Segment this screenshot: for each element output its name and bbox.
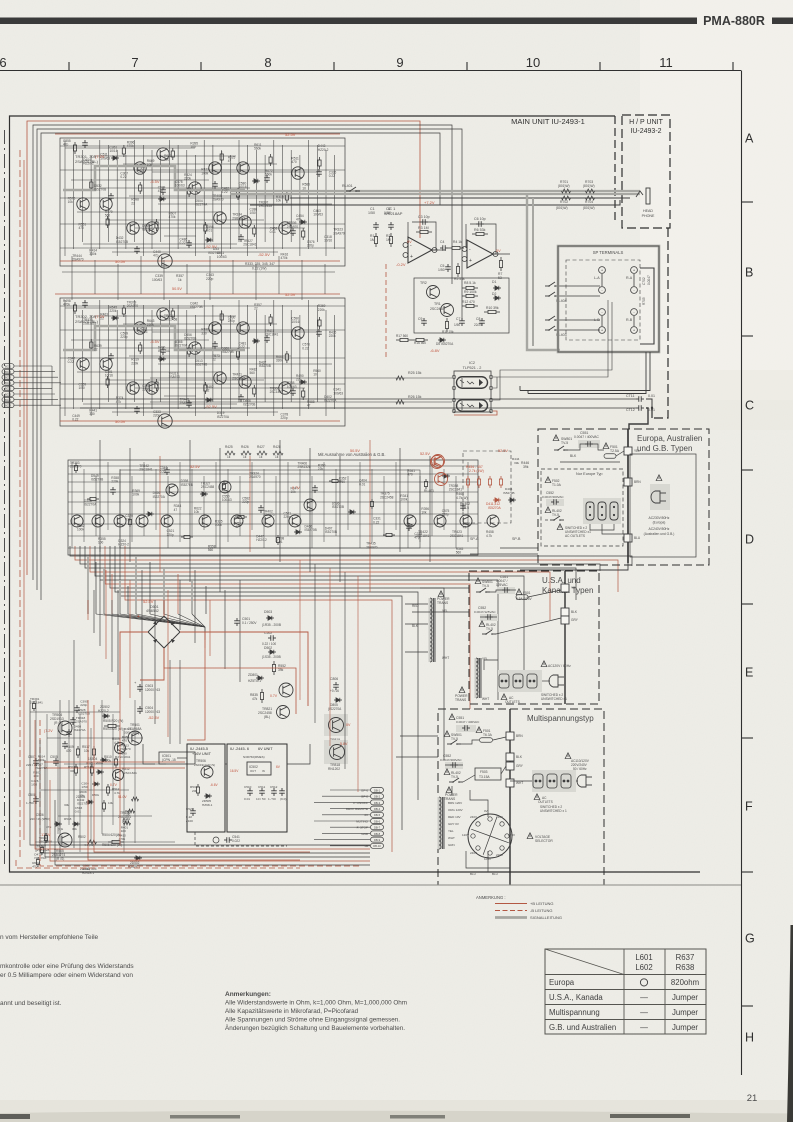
- europa plug: [656, 475, 662, 481]
- svg-text:HZ98-1: HZ98-1: [202, 803, 213, 807]
- transistor TR821: [277, 706, 290, 719]
- diode D301: [158, 197, 166, 201]
- svg-text:UNSWITCHED x1: UNSWITCHED x1: [541, 697, 567, 701]
- wire tone vertical: [71, 462, 73, 548]
- svg-text:10: 10: [313, 372, 317, 376]
- table frame: [545, 949, 706, 1034]
- connector BC-3: [2, 375, 14, 380]
- right tick: [742, 737, 754, 739]
- wire vertical: [247, 145, 249, 256]
- wire horizontal: [123, 163, 277, 165]
- svg-text:n vom Hersteller empfohlene Te: n vom Hersteller empfohlene Teile: [0, 934, 99, 941]
- transistor TR315: [127, 382, 139, 394]
- capacitor C333: [160, 187, 166, 195]
- resistor R311: [253, 385, 256, 397]
- wire vertical: [221, 150, 223, 256]
- svg-text:C527: C527: [186, 807, 194, 811]
- transistor TR415: [199, 515, 211, 527]
- wire feeder: [129, 448, 131, 562]
- svg-text:IS2270A: IS2270A: [175, 344, 188, 348]
- voltage selector rotary: [468, 814, 512, 858]
- svg-text:+B LEITUNG: +B LEITUNG: [530, 901, 553, 906]
- svg-text:+: +: [469, 258, 472, 264]
- svg-text:er 0.5 Milliampere oder einem: er 0.5 Milliampere oder einem Widerstand…: [0, 972, 133, 979]
- svg-text:IN: IN: [262, 769, 265, 773]
- svg-text:BRN: BRN: [634, 480, 641, 484]
- right tick: [742, 469, 754, 471]
- wire vertical: [238, 300, 240, 402]
- svg-text:1k: 1k: [275, 455, 279, 459]
- page separator line: [0, 884, 741, 886]
- red resistor R456: [488, 476, 491, 488]
- wire connector: [14, 382, 61, 384]
- wire vertical: [177, 145, 179, 249]
- europa exit wires: [500, 547, 538, 549]
- part: [164, 467, 170, 475]
- wire vertical: [125, 315, 127, 409]
- power trans label 1: [438, 591, 444, 597]
- svg-text:AC230V/50Hz: AC230V/50Hz: [649, 516, 670, 520]
- bridge diode: [153, 638, 158, 643]
- wire vertical: [125, 155, 127, 249]
- svg-text:OUTLETS: OUTLETS: [505, 700, 520, 704]
- svg-text:470k: 470k: [281, 256, 288, 260]
- resistor R309: [220, 311, 223, 323]
- wire db: [314, 839, 370, 841]
- table column lines: [623, 949, 625, 1034]
- svg-text:IU -2445- 6: IU -2445- 6: [230, 747, 249, 751]
- svg-text:0.0047/125VAC: 0.0047/125VAC: [474, 610, 496, 614]
- connector BC-1: [2, 364, 14, 369]
- svg-text:HEAD: HEAD: [643, 209, 653, 213]
- selector pin: [488, 851, 492, 855]
- bottom red dash bus: [16, 860, 300, 868]
- capacitor C338: [290, 388, 296, 396]
- svg-text:RN1202: RN1202: [328, 767, 340, 771]
- transistor TR420: [434, 515, 446, 527]
- wire feeder: [189, 440, 191, 582]
- capacitor C336: [238, 394, 244, 402]
- part: [146, 512, 154, 516]
- wire connector: [14, 404, 61, 406]
- wire vertical: [282, 145, 284, 249]
- part: [294, 530, 302, 534]
- wire tone vertical: [467, 462, 469, 542]
- svg-text:-6.8V: -6.8V: [430, 348, 440, 353]
- wire rail: [60, 197, 345, 199]
- resistor R5: [456, 263, 459, 277]
- wire db: [322, 814, 370, 816]
- transistor TR2: [427, 286, 440, 299]
- wire horizontal: [158, 363, 332, 365]
- svg-text:IS2270A: IS2270A: [153, 495, 166, 499]
- svg-text:220k: 220k: [184, 177, 191, 181]
- diode D502: [268, 650, 276, 654]
- svg-text:BC-6: BC-6: [5, 392, 11, 396]
- resistor R835: [260, 689, 263, 703]
- selector pin: [500, 846, 504, 850]
- svg-text:220k: 220k: [111, 480, 118, 484]
- part: [128, 517, 131, 527]
- svg-text:120V: 120V: [462, 833, 469, 837]
- wire psu vertical: [112, 714, 114, 825]
- transistor TR403 mid: [304, 499, 316, 511]
- wire horizontal: [135, 227, 305, 229]
- ruler tick: [68, 62, 70, 71]
- resistor R303: [122, 305, 125, 317]
- svg-text:D5 IS5270A: D5 IS5270A: [436, 342, 454, 346]
- svg-text:10k: 10k: [68, 200, 74, 204]
- svg-text:D503: D503: [264, 610, 272, 614]
- red transistor TR426: [431, 456, 444, 469]
- wire horizontal: [65, 307, 195, 309]
- svg-text:—: —: [640, 1023, 648, 1032]
- resistor R426: [241, 451, 251, 455]
- svg-text:50 / 60Hz: 50 / 60Hz: [573, 767, 587, 771]
- wire feeder: [99, 440, 101, 552]
- part psu: [100, 758, 108, 762]
- wire tone vertical: [167, 476, 169, 548]
- svg-text:YEL: YEL: [442, 609, 448, 613]
- wire horizontal: [123, 323, 277, 325]
- wire vertical: [81, 310, 83, 402]
- resistor R304: [139, 342, 142, 354]
- diode D503: [266, 616, 274, 620]
- right page edge dark strip: [787, 925, 793, 1122]
- svg-text:C4: C4: [440, 240, 444, 244]
- part: [370, 499, 373, 509]
- svg-text:BLK: BLK: [412, 624, 419, 628]
- wire tone vertical: [215, 462, 217, 548]
- svg-text:BC-4: BC-4: [5, 381, 11, 385]
- svg-text:0.22: 0.22: [373, 520, 379, 524]
- svg-text:0.0047 / 400VAC: 0.0047 / 400VAC: [574, 435, 599, 439]
- wire tone vertical: [455, 476, 457, 548]
- wire psu horizontal: [64, 763, 166, 765]
- wire psu vertical: [123, 728, 125, 852]
- part psu: [74, 705, 80, 713]
- svg-text:0V: 0V: [407, 240, 412, 244]
- transistor TR315: [127, 222, 139, 234]
- svg-text:R705: R705: [642, 297, 646, 305]
- diode D303: [252, 339, 260, 343]
- svg-text:R10 39k: R10 39k: [486, 306, 499, 310]
- svg-text:0V: 0V: [346, 723, 351, 727]
- svg-text:2SA970: 2SA970: [249, 475, 261, 479]
- svg-text:2SC1841: 2SC1841: [243, 242, 257, 246]
- svg-text:und G.B. Typen: und G.B. Typen: [637, 444, 692, 453]
- connector DB-7: [371, 825, 384, 830]
- wire db: [322, 795, 370, 797]
- svg-text:20k: 20k: [192, 789, 197, 793]
- svg-text:100/63: 100/63: [175, 184, 185, 188]
- diode D1: [493, 286, 501, 290]
- diode D302: [205, 238, 213, 242]
- transistor TR311: [134, 322, 146, 334]
- wire vertical: [299, 155, 301, 256]
- wire psu vertical: [57, 728, 59, 834]
- svg-text:(Europa): (Europa): [653, 521, 666, 525]
- resistor R305: [155, 379, 158, 391]
- svg-text:100k: 100k: [77, 528, 84, 532]
- wire horizontal: [112, 251, 278, 253]
- svg-text:-B LEITUNG: -B LEITUNG: [530, 908, 552, 913]
- svg-text:BC-8: BC-8: [5, 404, 11, 408]
- wire horizontal: [129, 195, 291, 197]
- wire tone vertical: [131, 476, 133, 542]
- wire db: [330, 826, 370, 828]
- wire vertical: [221, 310, 223, 416]
- svg-text:100k: 100k: [400, 497, 407, 501]
- svg-text:220p: 220p: [281, 416, 288, 420]
- svg-text:2SB1328: 2SB1328: [232, 216, 245, 220]
- wire vertical: [134, 300, 136, 402]
- svg-text:0.01: 0.01: [648, 394, 655, 398]
- transistor TR321: [209, 322, 221, 334]
- svg-text:C3 10p: C3 10p: [418, 215, 430, 219]
- capacitor C806: [333, 682, 339, 690]
- svg-text:R16 560: R16 560: [414, 341, 426, 345]
- wire tone vertical: [179, 462, 181, 542]
- selector pin: [505, 834, 509, 838]
- svg-text:—: —: [640, 993, 648, 1002]
- usa node BLK: [561, 608, 569, 616]
- svg-text:DB-4: DB-4: [374, 807, 381, 811]
- svg-text:GP-8: GP-8: [361, 795, 368, 799]
- wire feeder: [279, 440, 281, 562]
- svg-text:8: 8: [264, 55, 271, 70]
- svg-text:IS5270B: IS5270B: [116, 240, 128, 244]
- optocoupler 2: [457, 400, 488, 412]
- svg-text:560: 560: [208, 548, 214, 552]
- svg-text:PHONE: PHONE: [642, 214, 655, 218]
- svg-text:100k: 100k: [201, 171, 208, 175]
- selector spokes: [490, 836, 509, 843]
- svg-text:1/50: 1/50: [454, 323, 460, 327]
- svg-text:C7: C7: [456, 317, 460, 321]
- terminal L-B: [599, 309, 606, 316]
- svg-text:HZ20-2: HZ20-2: [118, 543, 129, 547]
- top bus black 1: [33, 125, 452, 580]
- bridge diode: [170, 621, 175, 626]
- svg-text:(1)k: (1)k: [58, 827, 64, 831]
- usa node bus: [564, 571, 566, 704]
- svg-text:B: B: [745, 266, 753, 280]
- header bar left: [0, 18, 697, 25]
- svg-text:4.7k: 4.7k: [486, 534, 492, 538]
- wire bus: [70, 546, 632, 566]
- signal trunk right: [527, 194, 560, 350]
- svg-text:(CPN -15: (CPN -15: [162, 758, 176, 762]
- svg-text:IS5270B: IS5270B: [325, 530, 337, 534]
- transistor TR505: [58, 833, 72, 847]
- capacitor C502: [268, 635, 276, 641]
- svg-text:YEL: YEL: [448, 829, 454, 833]
- wire psu vertical: [134, 700, 136, 843]
- svg-text:RL401: RL401: [342, 184, 353, 188]
- svg-text:100/63: 100/63: [217, 255, 227, 259]
- wire link vertical: [314, 564, 316, 723]
- svg-text:DB-5: DB-5: [374, 813, 381, 817]
- capacitor C335: [212, 341, 218, 349]
- wire rail: [60, 169, 345, 171]
- wire psu vertical: [35, 700, 37, 852]
- svg-text:47: 47: [307, 404, 311, 408]
- svg-text:2SA970: 2SA970: [169, 375, 181, 379]
- svg-text:47: 47: [463, 526, 467, 530]
- wire psu feeder: [111, 600, 113, 672]
- svg-text:470: 470: [79, 226, 85, 230]
- svg-text:2SC1841: 2SC1841: [450, 534, 464, 538]
- part: [424, 479, 427, 489]
- svg-text:10k: 10k: [194, 510, 200, 514]
- terminal post: [631, 287, 638, 294]
- svg-text:E: E: [745, 666, 753, 680]
- wire bus: [90, 546, 550, 620]
- part psu: [36, 857, 39, 867]
- svg-text:TV-5: TV-5: [561, 441, 568, 445]
- wire vertical: [142, 145, 144, 256]
- fuse F502: [545, 477, 551, 483]
- wire bus: [100, 546, 498, 700]
- usa switch: [475, 578, 481, 584]
- svg-text:Europa, Australien: Europa, Australien: [637, 434, 702, 443]
- wire psu horizontal: [41, 789, 129, 791]
- psu red feed 16V b: [44, 767, 185, 769]
- svg-text:GRY: GRY: [571, 618, 579, 622]
- multi bus: [509, 709, 511, 885]
- part: [200, 492, 208, 496]
- svg-text:IC2: IC2: [469, 361, 475, 365]
- wire vertical: [203, 140, 205, 249]
- svg-text:WHT: WHT: [516, 781, 523, 785]
- svg-text:0.22 (1W): 0.22 (1W): [252, 267, 266, 271]
- sp wires: [601, 274, 603, 286]
- wire rail: [60, 383, 345, 385]
- svg-text:Jumper: Jumper: [672, 1023, 698, 1032]
- header bar right: [772, 18, 793, 25]
- svg-text:HZ5TC-1: HZ5TC-1: [248, 679, 261, 683]
- svg-text:TR1: TR1: [434, 302, 441, 306]
- svg-text:TRANS: TRANS: [455, 698, 467, 702]
- svg-text:560: 560: [250, 371, 256, 375]
- red transistor TR427b: [435, 473, 448, 486]
- svg-text:R426: R426: [241, 445, 249, 449]
- svg-text:2SC2458: 2SC2458: [201, 485, 215, 489]
- wire vertical: [186, 150, 188, 242]
- transistor TR323: [237, 162, 249, 174]
- wire ct down: [629, 408, 648, 429]
- nor europe dashed box: [541, 469, 623, 546]
- svg-text:AC120V / 60Hz: AC120V / 60Hz: [548, 664, 571, 668]
- svg-text:C9: C9: [418, 317, 422, 321]
- wire tone vertical: [203, 476, 205, 530]
- svg-text:16.5V: 16.5V: [230, 769, 239, 773]
- svg-text:2SA970: 2SA970: [212, 197, 224, 201]
- switch RL402e: [545, 507, 551, 513]
- connector BC-5: [2, 386, 14, 391]
- svg-text:220k: 220k: [318, 308, 325, 312]
- part psu: [96, 770, 104, 774]
- resistor R307: [188, 345, 191, 357]
- svg-text:470k: 470k: [63, 303, 70, 307]
- svg-text:22: 22: [131, 201, 135, 205]
- wire vertical: [64, 140, 66, 256]
- svg-text:1M: 1M: [370, 238, 375, 242]
- capacitor C5: [445, 264, 451, 272]
- wire tone vertical: [431, 462, 433, 536]
- svg-text:DB-10: DB-10: [373, 844, 381, 848]
- svg-text:1 / 50: 1 / 50: [268, 797, 276, 801]
- svg-text:P. ON/OFF: P. ON/OFF: [353, 801, 368, 805]
- svg-text:52.5V: 52.5V: [285, 292, 296, 297]
- svg-text:BC-5: BC-5: [5, 387, 11, 391]
- wire link vertical: [329, 568, 331, 746]
- usa outlets: [498, 670, 542, 692]
- connector BC-8: [2, 403, 14, 408]
- top bus black 2: [37, 129, 462, 590]
- wire vertical: [325, 310, 327, 416]
- wire vertical: [168, 140, 170, 256]
- svg-text:IS5270B: IS5270B: [305, 528, 317, 532]
- capacitor C8: [479, 318, 485, 326]
- transistor TR333: [158, 414, 172, 428]
- wire rail: [60, 329, 345, 331]
- wire vertical: [264, 155, 266, 242]
- svg-text:IS5270B: IS5270B: [208, 251, 220, 255]
- svg-text:C512: C512: [270, 785, 278, 789]
- svg-text:2SA970: 2SA970: [72, 257, 84, 261]
- svg-text:(801)W): (801)W): [583, 206, 595, 210]
- svg-text:TRANS: TRANS: [437, 601, 449, 605]
- wire vertical: [151, 150, 153, 249]
- svg-text:2SC1841: 2SC1841: [449, 488, 463, 492]
- transistor TR506: [201, 766, 213, 778]
- svg-text:R518: R518: [64, 817, 72, 821]
- top bus black 3: [41, 133, 440, 600]
- svg-text:IS5270B: IS5270B: [259, 364, 271, 368]
- capacitor C339: [316, 329, 322, 337]
- transistor TR307: [77, 198, 89, 210]
- svg-text:220k: 220k: [110, 309, 117, 313]
- connector DB-1: [371, 788, 384, 793]
- svg-text:IS2270A: IS2270A: [142, 227, 155, 231]
- resistor R315: [318, 157, 321, 169]
- transistor TR329: [292, 167, 304, 179]
- wire tone vertical: [263, 469, 265, 548]
- red rail bottom: [60, 260, 340, 262]
- svg-text:2SC1841: 2SC1841: [265, 333, 279, 337]
- svg-text:Änderungen bezüglich Schaltung: Änderungen bezüglich Schaltung und Bauel…: [225, 1024, 405, 1032]
- relay wires: [559, 285, 600, 287]
- capacitor C503: [137, 684, 143, 692]
- part: [348, 510, 356, 514]
- wire db: [330, 789, 370, 791]
- resistor R312: [269, 314, 272, 326]
- transistor TR329: [292, 327, 304, 339]
- wire psu feeder: [179, 580, 181, 630]
- wire psu vertical: [101, 700, 103, 834]
- svg-text:6: 6: [0, 55, 7, 70]
- bridge diode: [170, 638, 175, 643]
- bridge red wires: [120, 632, 148, 700]
- svg-text:WHT: WHT: [448, 836, 455, 840]
- transistor TR509: [115, 743, 126, 754]
- svg-text:330k: 330k: [89, 252, 96, 256]
- wire horizontal: [106, 379, 264, 381]
- wire connector: [14, 371, 55, 373]
- connector DB-6: [371, 819, 384, 824]
